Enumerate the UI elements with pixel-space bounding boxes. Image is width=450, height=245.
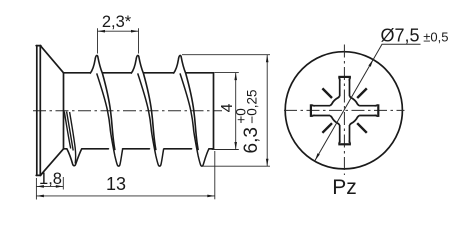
thread turn 2 crest + outer flank [131, 55, 156, 150]
arrow right of 1,8 [56, 185, 64, 188]
dimension line 13 [36, 195, 214, 197]
dimension line 1,8 [36, 185, 63, 187]
recess center quadrant upper-left (step + arc + step) [330, 96, 340, 106]
extension line body top right [215, 72, 239, 74]
arrow right of 13 [207, 195, 215, 198]
extension line head left face [35, 178, 37, 200]
dimension line 6,3 [266, 55, 268, 167]
arrow bottom of 6,3 [266, 159, 269, 167]
dimension line 2,3 [98, 30, 139, 32]
right arm cap flares [375, 105, 378, 117]
svg-text:Pz: Pz [332, 176, 357, 199]
leader arrow upper (on circle) [368, 59, 373, 66]
left arm cap flares [312, 105, 315, 117]
head cone bottom edge [40, 149, 63, 176]
top arm cap flares [339, 78, 351, 81]
top arm sides [340, 78, 350, 96]
svg-text:−0,25: −0,25 [244, 89, 259, 123]
extension line crest top level [182, 54, 270, 56]
head outer face line [36, 46, 38, 176]
recess center quadrant lower-left [330, 116, 340, 126]
thread runout line C at head [70, 112, 76, 164]
Pozidriv recess [311, 77, 378, 144]
leader arrow lower (on circle) [315, 153, 320, 160]
thread fin 1 [67, 149, 82, 166]
svg-text:6,3: 6,3 [241, 127, 262, 153]
body right end [213, 73, 215, 149]
svg-text:±0,5: ±0,5 [423, 29, 448, 44]
svg-text:Ø7,5: Ø7,5 [381, 25, 420, 45]
svg-text:2,3*: 2,3* [102, 13, 132, 31]
body top line segments [64, 72, 91, 74]
arrow top of 4 [234, 73, 237, 81]
thread runout line B at head [67, 112, 74, 151]
svg-text:13: 13 [106, 174, 126, 194]
pozidriv tick lower-left [322, 123, 332, 133]
arrow bottom of 4 [234, 142, 237, 150]
head cone top edge [40, 46, 63, 73]
vertical centerline [343, 45, 345, 176]
recess center quadrant lower-right [350, 116, 360, 126]
screw body outline [36, 46, 213, 176]
head top cap [36, 45, 41, 47]
pozidriv tick lower-right [357, 123, 367, 133]
svg-text:1,8: 1,8 [39, 170, 62, 188]
arrow left of 13 [36, 195, 44, 198]
left arm sides [312, 106, 330, 116]
head outline circle [285, 52, 402, 169]
top arm cap [338, 76, 351, 78]
head bottom cap [36, 174, 41, 176]
body bottom line segments [64, 148, 67, 150]
arrow left of 1,8 [36, 185, 44, 188]
bottom arm cap flares [339, 141, 351, 144]
thread turn 3 crest + outer flank [173, 55, 198, 150]
centerline (screw axis) [33, 110, 222, 112]
pozidriv tick upper-right [357, 88, 367, 98]
thread turn 1 crest + outer flank [90, 55, 115, 150]
arrow top of 6,3 [266, 55, 269, 63]
thread turn 3 inner flank + fin 4 [180, 73, 209, 166]
arrow right of 2,3 [131, 30, 139, 33]
thread runout line A at head [64, 112, 70, 149]
recess center quadrant upper-right [350, 96, 360, 106]
head inner face line [39, 46, 41, 176]
head-body junction line [63, 73, 65, 149]
right arm sides [359, 106, 377, 116]
extension line left (crest1 tip) [97, 28, 99, 53]
left arm cap [310, 104, 312, 117]
horizontal centerline [284, 109, 405, 111]
bottom arm sides [340, 125, 350, 143]
pozidriv tick upper-left [322, 88, 332, 98]
arrow left of 2,3 [98, 30, 106, 33]
thread turn 1 inner flank + fin 2 [97, 73, 123, 166]
bottom arm cap [338, 143, 351, 145]
extension line right (crest2 tip) [138, 28, 140, 53]
extension line cone base [62, 177, 64, 190]
extension line fin bottom level [201, 165, 270, 167]
dimension line 4 [235, 73, 237, 150]
extension line body bottom right [212, 149, 239, 151]
extension line body end [214, 151, 216, 199]
diameter leader line [315, 44, 421, 160]
thread turn 2 inner flank + fin 3 [138, 73, 164, 166]
right arm cap [377, 104, 379, 117]
